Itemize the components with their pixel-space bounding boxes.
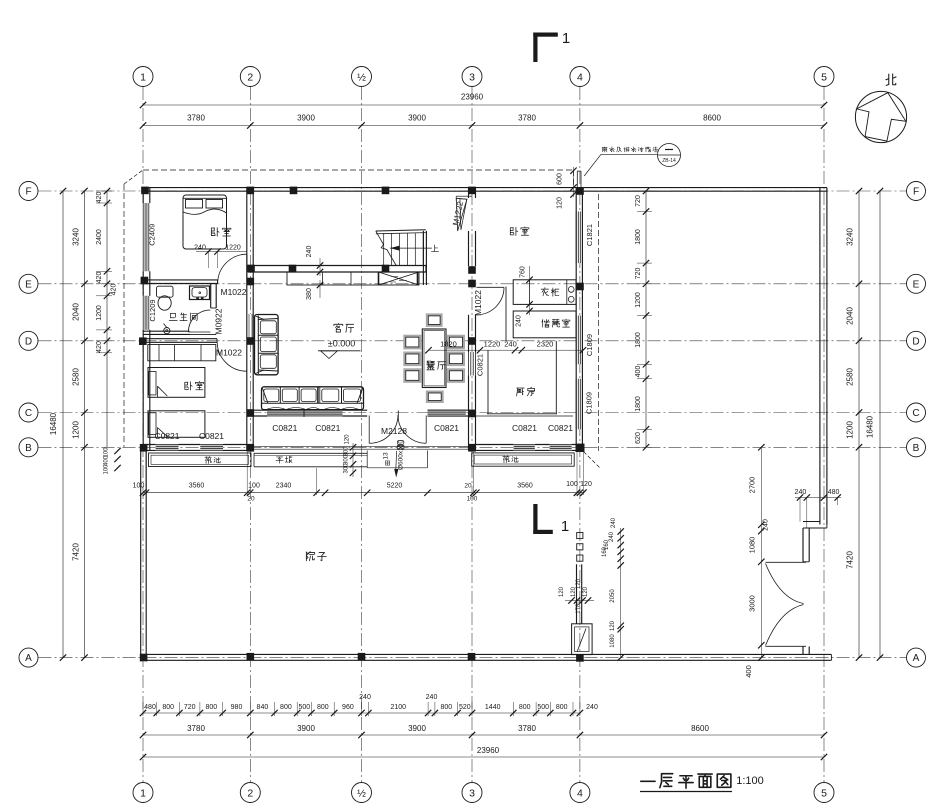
- svg-text:100: 100: [566, 481, 578, 488]
- svg-text:240: 240: [611, 517, 617, 528]
- dimension column right-yard details: [645, 191, 647, 447]
- svg-text:M1022: M1022: [221, 287, 247, 297]
- svg-text:3900: 3900: [408, 724, 426, 733]
- wall row F right yard: [583, 187, 827, 189]
- door M1222 folding leaves: [456, 198, 467, 231]
- svg-text:3780: 3780: [518, 724, 536, 733]
- svg-text:2340: 2340: [276, 483, 292, 490]
- gate dim 240 480: [795, 497, 841, 499]
- bathroom south wall: [143, 330, 189, 332]
- window C1809 lower (east wall): [577, 379, 581, 430]
- svg-text:3000: 3000: [748, 595, 757, 612]
- wall grid2 x=250 E-D: [246, 284, 248, 341]
- svg-text:7420: 7420: [72, 543, 81, 561]
- svg-text:16480: 16480: [866, 415, 875, 438]
- svg-text:840: 840: [257, 704, 269, 711]
- svg-text:3560: 3560: [189, 483, 205, 490]
- svg-text:120: 120: [576, 578, 582, 589]
- svg-text:8600: 8600: [691, 724, 709, 733]
- wall west (grid 1): [142, 188, 144, 451]
- svg-text:2400: 2400: [96, 229, 103, 245]
- sofa horizontal: [262, 387, 364, 410]
- partition x=506: [505, 287, 507, 341]
- svg-text:2320: 2320: [537, 340, 554, 349]
- svg-text:240: 240: [504, 340, 517, 349]
- svg-text:C2409: C2409: [148, 224, 157, 246]
- svg-text:420: 420: [96, 341, 103, 353]
- stair hall beam row E: [248, 265, 426, 267]
- svg-text:520: 520: [459, 704, 471, 711]
- svg-text:4: 4: [577, 71, 583, 83]
- svg-text:2580: 2580: [846, 368, 855, 386]
- svg-text:240: 240: [795, 489, 807, 496]
- svg-text:300: 300: [344, 454, 350, 465]
- hall cabinet below beam: [287, 272, 419, 285]
- svg-text:1220: 1220: [484, 340, 501, 349]
- window C0821 right living: [428, 410, 466, 416]
- svg-text:480: 480: [828, 489, 840, 496]
- svg-text:1: 1: [561, 518, 569, 535]
- svg-text:1220: 1220: [225, 245, 241, 252]
- window C0821 (wall grid3 D-C): [468, 352, 477, 376]
- dashed roof overhang outline: [143, 169, 574, 171]
- cabinet bedroom2: [148, 345, 216, 361]
- svg-text:500: 500: [537, 704, 549, 711]
- svg-text:C1209: C1209: [148, 299, 157, 321]
- svg-text:240: 240: [306, 246, 313, 258]
- svg-text:800: 800: [440, 704, 452, 711]
- svg-text:760: 760: [520, 266, 527, 278]
- svg-text:2: 2: [247, 71, 253, 83]
- label bathroom: [169, 313, 177, 320]
- svg-text:3780: 3780: [187, 724, 205, 733]
- svg-text:240: 240: [426, 694, 438, 701]
- svg-text:3900: 3900: [297, 114, 315, 123]
- dimension row bottom segments: [143, 734, 824, 736]
- gate post grid4: [572, 624, 593, 655]
- svg-text:1800: 1800: [635, 229, 642, 245]
- svg-text:1080: 1080: [610, 634, 616, 648]
- svg-text:3240: 3240: [72, 228, 81, 246]
- dimension 16480 right: [879, 191, 881, 658]
- svg-text:F: F: [913, 187, 919, 198]
- svg-text:3900: 3900: [408, 114, 426, 123]
- wall row B bedroom2 wing: [141, 444, 253, 446]
- dining table: [422, 329, 446, 388]
- label kitchen: [517, 388, 525, 396]
- window C1209 (west wall bathroom): [142, 296, 151, 330]
- svg-text:3780: 3780: [518, 114, 536, 123]
- window C0821 k right: [550, 444, 572, 452]
- staircase treads and break line: [376, 230, 426, 231]
- shower head: [164, 328, 170, 334]
- wall grid3 F to door: [468, 188, 470, 198]
- planter east: [472, 453, 575, 466]
- door M1022 bedroom2: [217, 342, 246, 371]
- svg-text:C1809: C1809: [585, 392, 594, 414]
- callout text: [602, 147, 607, 152]
- label dining room: [427, 361, 435, 370]
- svg-text:3240: 3240: [846, 228, 855, 246]
- ramp: [254, 452, 367, 454]
- section fence posts: [577, 533, 583, 539]
- dim 240/1220 bedroom1 door: [196, 251, 247, 253]
- svg-text:8600: 8600: [703, 114, 721, 123]
- structural columns (black squares): [141, 187, 149, 195]
- window C0821 k left: [514, 444, 535, 452]
- svg-text:C0821: C0821: [272, 423, 297, 433]
- floor drain at entrance: [397, 441, 404, 445]
- svg-text:1200: 1200: [72, 421, 81, 439]
- svg-text:1:100: 1:100: [736, 775, 764, 787]
- svg-text:½: ½: [357, 787, 366, 799]
- svg-text:120: 120: [580, 481, 592, 488]
- dimension 23960 bottom: [143, 756, 824, 758]
- planter west: [149, 453, 252, 467]
- svg-text:1200: 1200: [635, 292, 642, 308]
- svg-text:C1809: C1809: [585, 334, 594, 356]
- svg-text:120: 120: [583, 586, 589, 597]
- wardrobe: [513, 280, 576, 305]
- courtyard dim column mid: [620, 528, 622, 658]
- kitchen partitions: [487, 350, 489, 414]
- svg-text:400: 400: [744, 665, 753, 678]
- dimension 16480 left: [62, 191, 64, 658]
- courtyard west wall: [140, 451, 142, 662]
- grid axis lines horizontal A-F: [39, 190, 907, 192]
- svg-text:1780: 1780: [576, 600, 582, 614]
- svg-text:5: 5: [821, 787, 827, 799]
- svg-text:620: 620: [635, 432, 642, 444]
- svg-text:800: 800: [519, 704, 531, 711]
- svg-text:2100: 2100: [391, 704, 407, 711]
- svg-text:240: 240: [194, 245, 206, 252]
- bed2 upper: [148, 368, 205, 398]
- svg-text:C1821: C1821: [585, 224, 594, 246]
- svg-text:1820: 1820: [440, 340, 457, 349]
- label bedroom3: [510, 227, 517, 235]
- svg-text:M1022: M1022: [216, 348, 242, 358]
- dimension row bottom details: [143, 712, 580, 714]
- sofa vertical 3-seat: [255, 315, 279, 375]
- svg-text:C0821: C0821: [199, 431, 224, 441]
- svg-text:300: 300: [344, 463, 350, 474]
- svg-text:1: 1: [562, 30, 570, 47]
- svg-text:400: 400: [635, 366, 642, 378]
- svg-text:20: 20: [247, 496, 255, 503]
- svg-text:800: 800: [162, 704, 174, 711]
- courtyard dim column right: [760, 447, 762, 657]
- svg-text:800: 800: [205, 704, 217, 711]
- grid bubbles bottom: [133, 783, 153, 803]
- svg-text:100: 100: [104, 464, 110, 475]
- section fence wall: [576, 564, 578, 624]
- svg-text:120: 120: [557, 197, 564, 209]
- wall row E bedroom1/bathroom: [143, 279, 217, 281]
- svg-text:800: 800: [317, 704, 329, 711]
- label courtyard: [306, 551, 314, 560]
- svg-text:240: 240: [609, 531, 615, 542]
- svg-text:5: 5: [821, 71, 827, 83]
- porch step dims: [350, 444, 356, 450]
- svg-text:2050: 2050: [610, 589, 616, 603]
- svg-text:720: 720: [635, 268, 642, 280]
- label bedroom1: [211, 228, 219, 237]
- east wall jog: [803, 521, 820, 523]
- svg-text:C: C: [912, 408, 919, 419]
- window C1809 upper (east wall): [577, 316, 581, 365]
- callout leader: [601, 153, 657, 155]
- svg-text:1: 1: [140, 787, 146, 799]
- grid bubbles top: [133, 67, 153, 87]
- label planter east: [503, 456, 509, 463]
- svg-text:2: 2: [247, 787, 253, 799]
- svg-text:3560: 3560: [517, 483, 533, 490]
- wall grid3 D-C: [468, 341, 470, 352]
- svg-text:240: 240: [359, 694, 371, 701]
- dimension row left details: [106, 191, 108, 447]
- east yard wall upper: [819, 188, 821, 525]
- svg-text:A: A: [25, 653, 32, 664]
- window C1821 (east wall): [577, 212, 581, 264]
- svg-text:B: B: [25, 443, 32, 454]
- svg-text:120: 120: [610, 620, 616, 631]
- wall row F (north wall): [141, 187, 583, 189]
- svg-text:1080: 1080: [748, 537, 757, 554]
- svg-text:240: 240: [763, 519, 770, 531]
- svg-text:2040: 2040: [846, 307, 855, 325]
- svg-text:B: B: [913, 443, 920, 454]
- label bedroom2: [185, 382, 192, 390]
- svg-text:½: ½: [357, 71, 366, 83]
- svg-text:380: 380: [306, 288, 313, 300]
- svg-text:800: 800: [280, 704, 292, 711]
- svg-text:480: 480: [144, 704, 156, 711]
- bed2 lower: [148, 411, 205, 438]
- wall grid3 C-B wing: [468, 416, 470, 451]
- fence dims 120: [568, 597, 574, 603]
- gate double door: [766, 561, 807, 563]
- dimension row under B details: [143, 492, 583, 494]
- svg-text:C0821: C0821: [512, 423, 537, 433]
- grid bubbles left: [19, 182, 38, 201]
- dimension row right segments: [858, 191, 860, 658]
- svg-text:400: 400: [104, 455, 110, 466]
- svg-text:100: 100: [133, 483, 145, 490]
- svg-text:2580: 2580: [72, 368, 81, 386]
- svg-text:1800: 1800: [635, 396, 642, 412]
- dimension row top segments: [143, 125, 824, 127]
- dimension row left segments: [84, 191, 86, 658]
- window C0821 b2 left: [156, 444, 179, 452]
- svg-text:300: 300: [344, 446, 350, 457]
- svg-text:240: 240: [586, 704, 598, 711]
- svg-text:3: 3: [469, 787, 475, 799]
- svg-text:5220: 5220: [387, 483, 403, 490]
- svg-text:500: 500: [298, 704, 310, 711]
- svg-text:100: 100: [104, 447, 110, 458]
- svg-text:F: F: [25, 187, 31, 198]
- svg-text:C: C: [25, 408, 32, 419]
- grid bubbles right: [907, 182, 926, 201]
- svg-text:1200: 1200: [846, 421, 855, 439]
- svg-text:D: D: [25, 336, 32, 347]
- door M1022 kitchen: [477, 286, 505, 288]
- svg-text:16480: 16480: [49, 412, 58, 435]
- svg-text:C0821: C0821: [475, 354, 484, 376]
- svg-text:720: 720: [635, 195, 642, 207]
- svg-text:C0821: C0821: [434, 423, 459, 433]
- dining chairs: [426, 313, 443, 327]
- svg-text:M0922: M0922: [214, 308, 224, 334]
- svg-text:4: 4: [577, 787, 583, 799]
- svg-text:A: A: [913, 653, 920, 664]
- section mark bottom: [533, 504, 537, 534]
- svg-text:3900: 3900: [297, 724, 315, 733]
- wall grid2 x=250 D-B: [246, 341, 248, 451]
- svg-text:1200: 1200: [96, 305, 103, 321]
- door M0922 bathroom: [188, 310, 210, 332]
- north arrow: [855, 91, 906, 142]
- svg-text:720: 720: [184, 704, 196, 711]
- dimension 23960 top: [143, 104, 824, 106]
- wall grid2 x=250 F-E: [246, 188, 248, 284]
- courtyard south wall: [141, 653, 585, 655]
- label wardrobe: [541, 288, 549, 296]
- svg-text:980: 980: [231, 704, 243, 711]
- window C2409 (west wall bedroom1): [142, 203, 151, 271]
- svg-text:M1022: M1022: [473, 290, 483, 316]
- entrance walk: [366, 450, 368, 467]
- svg-text:ZB-14: ZB-14: [662, 158, 676, 164]
- svg-text:E: E: [25, 279, 32, 290]
- svg-text:1800: 1800: [635, 332, 642, 348]
- svg-text:240: 240: [515, 315, 522, 327]
- label ramp: [276, 457, 283, 463]
- door M1022 bedroom1: [246, 255, 248, 284]
- window C0821 b2 right: [200, 444, 223, 452]
- svg-text:160: 160: [602, 546, 608, 557]
- window C0821 pair living: [267, 410, 343, 416]
- title first floor plan: [641, 780, 655, 782]
- section mark top: [533, 33, 537, 63]
- wall row D bedroom2: [141, 338, 217, 340]
- svg-text:2040: 2040: [72, 303, 81, 321]
- label storage room: [542, 320, 550, 328]
- svg-text:420: 420: [96, 272, 103, 284]
- svg-text:C0821: C0821: [315, 423, 340, 433]
- svg-text:13: 13: [383, 452, 390, 460]
- svg-text:960: 960: [342, 704, 354, 711]
- svg-text:23960: 23960: [477, 746, 500, 755]
- grid axis lines vertical 1,2,1/2,3,4,5: [142, 87, 144, 782]
- washbasin: [190, 286, 210, 300]
- stair up arrow: [390, 247, 432, 249]
- wall grid4 F-B east wall: [575, 188, 577, 451]
- wall row B kitchen wing: [469, 444, 584, 446]
- gutter stub above F: [576, 171, 578, 187]
- door M2128 entrance: [397, 411, 399, 420]
- label living room: [334, 323, 343, 332]
- svg-text:420: 420: [111, 284, 118, 296]
- svg-text:100: 100: [467, 496, 478, 503]
- stair west wall: [422, 231, 424, 285]
- dim row D kitchen: [429, 349, 584, 351]
- svg-text:120: 120: [559, 586, 565, 597]
- callout bubble: [658, 144, 681, 167]
- svg-text:800: 800: [556, 704, 568, 711]
- svg-text:420: 420: [96, 192, 103, 204]
- storage room box: [513, 311, 576, 338]
- svg-text:23960: 23960: [461, 93, 484, 102]
- wall row C segments: [247, 409, 267, 411]
- bathroom east wall: [210, 283, 212, 308]
- courtyard south wall right: [585, 653, 831, 655]
- wall grid3 E-D segment: [468, 315, 470, 341]
- svg-text:1: 1: [140, 71, 146, 83]
- svg-text:M2128: M2128: [381, 426, 407, 436]
- svg-text:2700: 2700: [748, 477, 757, 494]
- svg-text:C0821: C0821: [548, 423, 573, 433]
- svg-text:3: 3: [469, 71, 475, 83]
- wall grid3 door to E: [468, 231, 470, 266]
- svg-text:1440: 1440: [485, 704, 501, 711]
- porch edge lines: [253, 446, 468, 448]
- svg-text:7420: 7420: [846, 551, 855, 569]
- svg-text:600: 600: [557, 173, 564, 185]
- svg-text:E: E: [913, 279, 920, 290]
- svg-text:±0.000: ±0.000: [328, 339, 355, 349]
- svg-text:D: D: [912, 336, 919, 347]
- gutter dims 600 120: [573, 167, 575, 197]
- svg-text:120: 120: [345, 434, 351, 445]
- svg-text:Ø600x150: Ø600x150: [398, 440, 405, 470]
- svg-text:C0821: C0821: [154, 431, 179, 441]
- gate lower stub: [802, 647, 804, 655]
- svg-text:20: 20: [464, 483, 472, 490]
- entrance arrow: [395, 451, 398, 470]
- label shang (up): [431, 245, 438, 252]
- svg-text:100: 100: [248, 483, 260, 490]
- label planter west: [205, 457, 211, 464]
- bed bedroom1: [183, 195, 227, 249]
- toilet: [157, 286, 174, 297]
- svg-text:3780: 3780: [187, 114, 205, 123]
